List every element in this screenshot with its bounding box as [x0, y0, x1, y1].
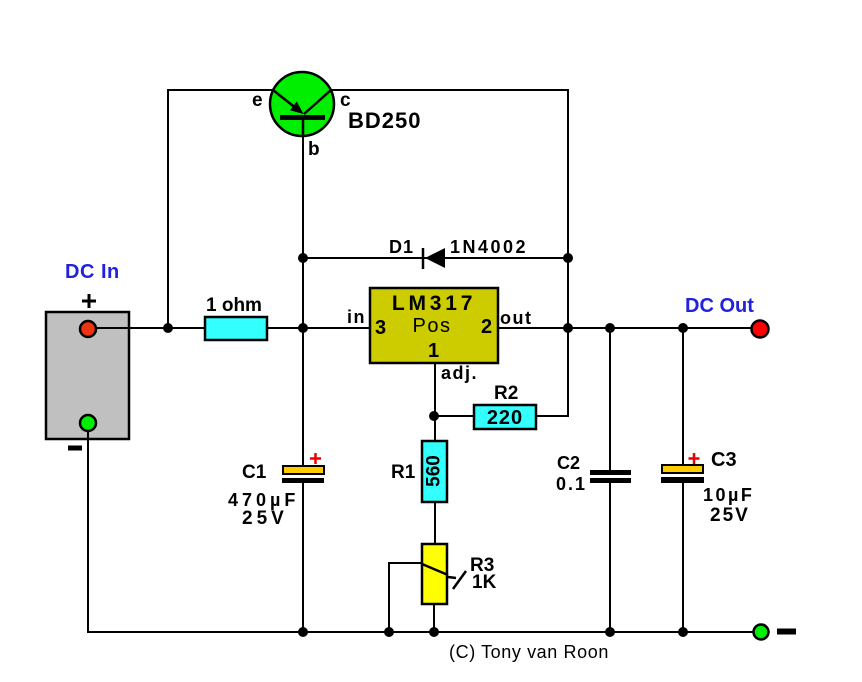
- transistor emitter line: [273, 90, 297, 109]
- svg-text:0.1: 0.1: [556, 474, 587, 494]
- junction dot: C2 / ground: [605, 627, 615, 637]
- junction dot: C3 / output wire: [678, 323, 688, 333]
- capacitor C2 bottom plate: [590, 478, 631, 483]
- svg-text:560: 560: [424, 455, 445, 487]
- resistor 1 ohm: [205, 317, 267, 340]
- svg-text:C2: C2: [557, 453, 580, 473]
- ground output terminal (green): [754, 625, 769, 640]
- wire main output: LM317 out to DC Out terminal: [497, 327, 753, 329]
- wire R3 wiper horizontal: [389, 562, 423, 564]
- svg-text:1K: 1K: [472, 572, 497, 593]
- transistor base vertical inside body: [302, 119, 305, 137]
- wire base vertical from transistor to main input wire: [302, 119, 304, 329]
- junction dot: base line / input wire: [298, 323, 308, 333]
- wire C1 branch vertical lower: [302, 482, 304, 632]
- svg-text:470µF: 470µF: [228, 490, 299, 510]
- svg-text:b: b: [308, 139, 320, 160]
- junction dot: left vertical / input wire: [163, 323, 173, 333]
- C3 plus sign (red): [689, 453, 700, 464]
- wire main input: battery plus to 1 ohm resistor: [96, 327, 205, 329]
- wire R3 wiper vertical to ground: [388, 562, 390, 632]
- junction dot: base line / D1 wire: [298, 253, 308, 263]
- svg-text:BD250: BD250: [348, 108, 421, 133]
- svg-text:C3: C3: [711, 449, 737, 471]
- svg-text:Pos: Pos: [413, 315, 452, 337]
- capacitor C1 positive plate (gold): [283, 466, 324, 474]
- junction dot: C1 / ground: [298, 627, 308, 637]
- svg-text:C1: C1: [242, 462, 267, 483]
- junction dot: C2 / output wire: [605, 323, 615, 333]
- wire adj vertical from LM317 pin1 to R1: [434, 362, 436, 441]
- svg-text:LM317: LM317: [392, 292, 476, 315]
- svg-text:(C) Tony van Roon: (C) Tony van Roon: [449, 642, 609, 662]
- transistor base bar: [280, 115, 325, 120]
- junction dot: R3 / ground: [429, 627, 439, 637]
- wire R2 right to output branch: [536, 415, 569, 417]
- wire C2 branch vertical upper: [609, 328, 611, 471]
- svg-text:25V: 25V: [710, 505, 750, 526]
- battery minus sign: [68, 446, 82, 451]
- output minus sign: [777, 629, 796, 635]
- wire R1 bottom to R3 top: [434, 502, 436, 544]
- transistor collector line: [304, 90, 331, 114]
- wire battery plus terminal to box edge (over gray): [96, 327, 131, 329]
- svg-text:10µF: 10µF: [703, 485, 754, 505]
- svg-text:DC In: DC In: [65, 261, 120, 283]
- diode D1 triangle: [425, 248, 445, 268]
- svg-text:3: 3: [375, 317, 386, 339]
- capacitor C2 top plate: [590, 470, 631, 475]
- wire C3 branch vertical upper: [682, 328, 684, 466]
- capacitor C3 positive plate (gold): [662, 465, 703, 473]
- svg-text:1N4002: 1N4002: [450, 237, 528, 257]
- svg-text:adj.: adj.: [441, 363, 478, 383]
- svg-text:25V: 25V: [242, 508, 288, 529]
- wire top right horizontal from transistor collector to right vertical: [331, 89, 569, 91]
- battery DC In box: [46, 312, 129, 439]
- battery plus terminal (red): [80, 321, 96, 337]
- svg-text:DC Out: DC Out: [685, 295, 754, 317]
- wire battery minus terminal to box bottom (over gray): [87, 430, 89, 441]
- battery plus sign: [82, 294, 96, 308]
- junction dot: adj / R2: [429, 411, 439, 421]
- wire left vertical (emitter branch): [167, 89, 169, 329]
- svg-text:in: in: [347, 307, 366, 327]
- potentiometer wiper diagonal: [422, 564, 448, 575]
- wire main input: 1 ohm resistor to LM317 in: [267, 327, 371, 329]
- wire right vertical (collector/output branch): [567, 89, 569, 416]
- resistor R1: [422, 441, 447, 502]
- potentiometer R3 body: [422, 544, 447, 604]
- svg-text:out: out: [500, 308, 532, 328]
- junction dot: right vertical / D1 wire: [563, 253, 573, 263]
- capacitor C3 negative plate: [661, 477, 704, 483]
- regulator U1 LM317 body: [370, 288, 498, 363]
- wire adj to R2 left: [434, 415, 474, 417]
- junction dot: right vertical / output wire: [563, 323, 573, 333]
- svg-text:2: 2: [481, 316, 492, 338]
- transistor Q1 BD250 body: [270, 72, 334, 136]
- transistor emitter arrowhead: [290, 102, 304, 115]
- svg-text:e: e: [252, 90, 263, 111]
- svg-text:1: 1: [428, 340, 439, 362]
- wire D1 horizontal: [303, 257, 568, 259]
- DC Out terminal (red): [752, 321, 769, 338]
- svg-text:1 ohm: 1 ohm: [206, 295, 262, 316]
- wire top left horizontal from left vertical to transistor emitter: [167, 89, 274, 91]
- potentiometer wiper arrow mark: [448, 571, 466, 589]
- svg-text:220: 220: [487, 407, 523, 429]
- diode D1 cathode bar: [422, 248, 425, 269]
- wire R3 bottom to ground: [433, 604, 435, 632]
- junction dot: wiper / ground: [384, 627, 394, 637]
- wire battery minus vertical to ground bus: [87, 423, 89, 633]
- wire ground bus: [89, 631, 754, 633]
- wire C1 branch vertical upper: [302, 329, 304, 467]
- capacitor C1 negative plate: [282, 478, 324, 483]
- battery minus terminal (green): [80, 415, 96, 431]
- wire C3 branch vertical lower: [682, 482, 684, 632]
- C1 plus sign (red): [310, 453, 321, 464]
- junction dot: C3 / ground: [678, 627, 688, 637]
- svg-text:D1: D1: [389, 237, 414, 257]
- wire C2 branch vertical lower: [609, 483, 611, 632]
- resistor R2: [474, 405, 536, 429]
- svg-text:R2: R2: [494, 383, 518, 404]
- svg-text:R1: R1: [391, 462, 416, 483]
